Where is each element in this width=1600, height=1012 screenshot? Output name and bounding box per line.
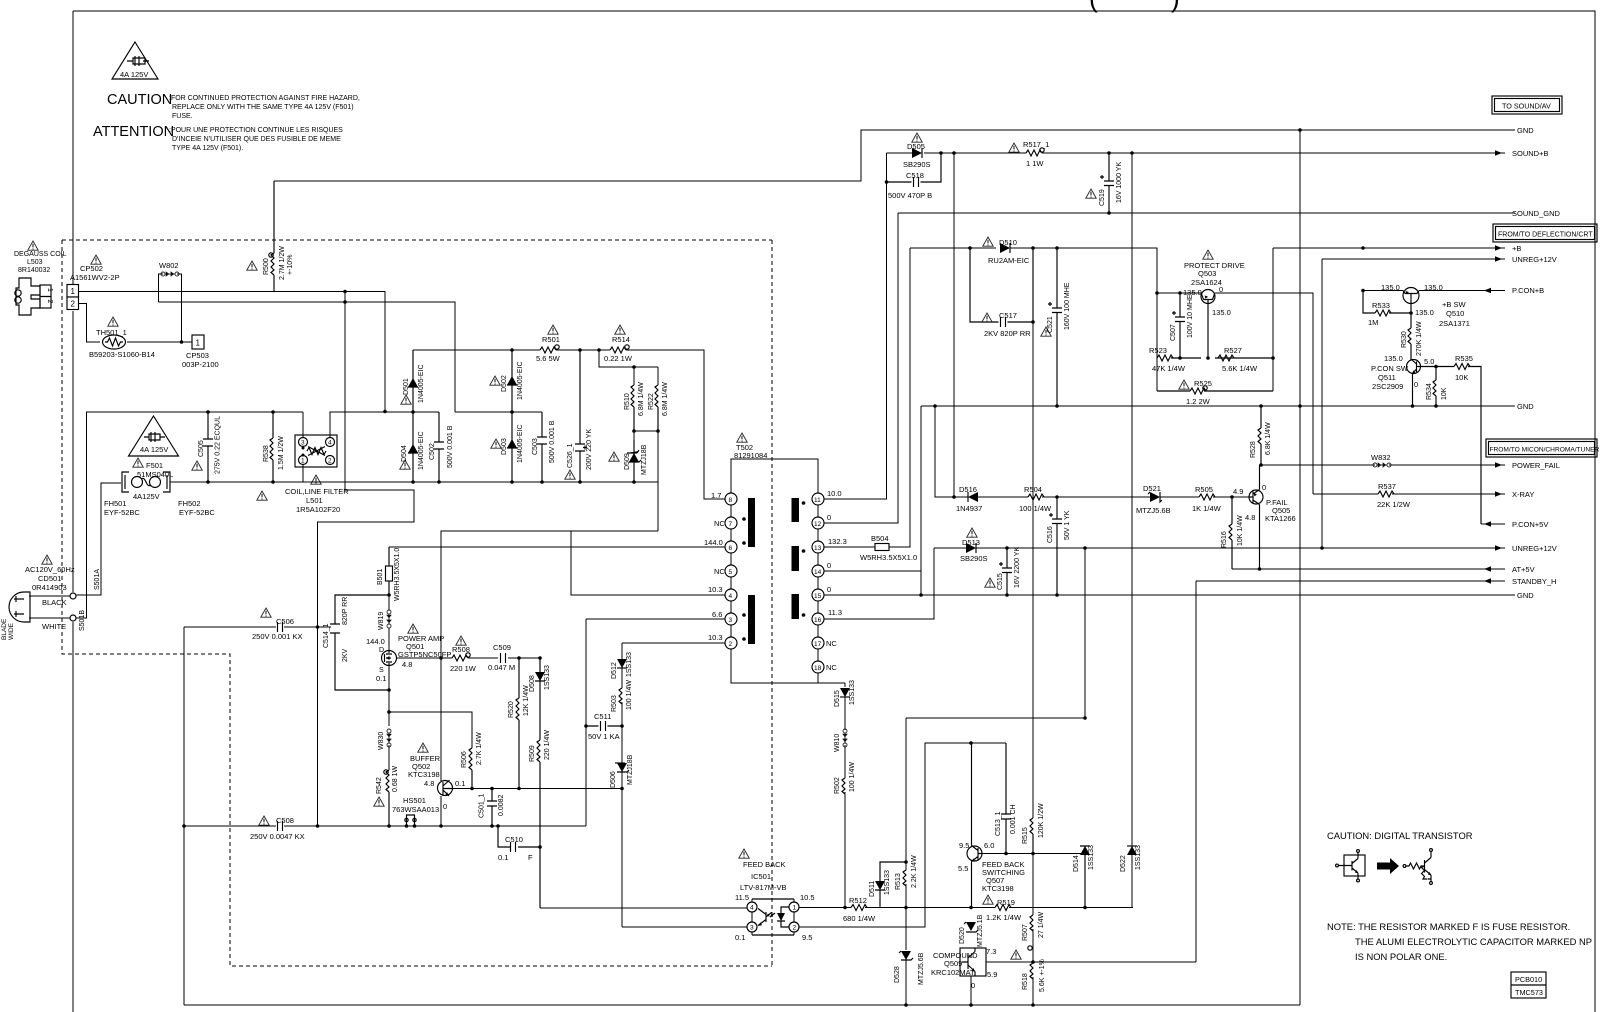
D509 zener diode [627,440,641,482]
node gnd C521 [1055,404,1059,408]
wire x1300 gnd drop [1299,130,1301,406]
buffer Q502 warning [418,743,428,752]
svg-text:BLACK: BLACK [42,598,67,607]
wire pin2 to D512 [622,642,725,644]
svg-text:680 1/4W: 680 1/4W [843,914,876,923]
svg-text:220 1/4W: 220 1/4W [544,730,551,760]
+B arrow [1495,245,1502,251]
svg-text:5: 5 [729,569,733,576]
svg-text:2SA1624: 2SA1624 [1191,278,1222,287]
svg-text:R530: R530 [1401,331,1408,348]
svg-text:UNREG+12V: UNREG+12V [1512,544,1557,553]
svg-text:R517_1: R517_1 [1023,140,1049,149]
node B D502 D503 [510,410,514,414]
D501 warning [401,395,411,404]
C521 warning [1041,327,1051,336]
R522 resistor [655,385,658,431]
D516 diode [968,492,978,502]
D510 labels [988,238,1030,265]
R509 resistor [537,740,540,908]
node gnd D516 [933,404,937,408]
wire plug to switch [29,596,70,618]
C506 capacitor [278,622,283,632]
svg-text:C511: C511 [594,712,611,721]
FH501 FH502 labels [104,499,215,517]
wire L501 pin3 up [302,412,304,438]
COMPOUND Q509 labels [931,947,997,990]
wire D512 R503 D506 chain [621,643,623,927]
svg-text:TO SOUND/AV: TO SOUND/AV [1502,102,1551,111]
svg-text:THE ALUMI ELECTROLYTIC CAPACIT: THE ALUMI ELECTROLYTIC CAPACITOR MARKED … [1355,936,1592,947]
R514 resistor [610,345,629,353]
wire feedback drop x1085 [1084,548,1086,718]
AT+5V arrow [1484,566,1491,572]
B504 labels [860,534,917,562]
R517_1 warning [1009,143,1019,152]
node Q503 base [1206,356,1210,360]
T502 pin 3 [725,613,737,625]
svg-text:120K 1/2W: 120K 1/2W [1038,803,1045,838]
node R533 R530 [1409,311,1413,315]
svg-text:EYF-52BC: EYF-52BC [179,508,215,517]
wire pin15 to gnd rail [824,594,921,596]
wire AC node B rail [455,411,542,413]
svg-text:1SS133: 1SS133 [1135,845,1142,870]
svg-text:5.0: 5.0 [1424,357,1434,366]
svg-text:D: D [379,647,384,654]
svg-text:W830: W830 [378,732,385,750]
node D510 in [968,246,972,250]
Q502 transistor [438,780,453,796]
svg-text:R509: R509 [529,745,536,762]
D513 diode [966,543,976,553]
C511 capacitor [586,721,622,731]
node R506 branch [387,710,391,714]
B504 ferrite bead [875,544,889,551]
svg-text:1N4005-EIC: 1N4005-EIC [517,424,524,463]
svg-text:R542: R542 [376,777,383,794]
svg-text:D516: D516 [959,485,977,494]
degauss connector pins 1 2 [40,285,51,308]
svg-text:+-10%: +-10% [287,255,294,275]
svg-text:003P-2100: 003P-2100 [182,360,219,369]
svg-text:50V 1 KA: 50V 1 KA [588,732,620,741]
degauss coil L503 warning [28,241,38,250]
wire pin8 from R514 [704,498,725,500]
IC501 pin 1 [789,902,799,912]
wire x954 to D516 [953,153,955,497]
R507 resistor [1030,915,1033,931]
wire Q503 collector emitter [1157,293,1313,494]
svg-text:7.3: 7.3 [986,947,996,956]
node A D501 D504 [411,410,415,414]
svg-text:R533: R533 [1372,301,1390,310]
node R538 bottom [271,480,275,484]
svg-text:SOUND_GND: SOUND_GND [1512,209,1561,218]
svg-text:S501A: S501A [94,569,101,590]
wire AT+5V line [1232,568,1505,570]
svg-text:TYPE 4A 125V (F501).: TYPE 4A 125V (F501). [172,145,243,152]
TO SOUND/AV box [1492,96,1562,114]
svg-text:135.0: 135.0 [1384,354,1403,363]
svg-text:2: 2 [71,300,76,309]
svg-text:4A 125V: 4A 125V [140,445,168,454]
fat arrow [1377,858,1399,874]
svg-text:MTZJ5.6B: MTZJ5.6B [918,952,925,985]
svg-text:GND: GND [1517,402,1534,411]
svg-text:SB290S: SB290S [903,160,931,169]
R500 warning [247,261,257,270]
svg-text:0.047 M: 0.047 M [488,663,515,672]
svg-text:1R5A102F20: 1R5A102F20 [296,505,340,514]
svg-text:NC: NC [714,567,725,576]
svg-text:FH501: FH501 [104,499,127,508]
svg-text:1.5M 1/2W: 1.5M 1/2W [278,436,285,470]
node protect left [1155,291,1159,295]
node gnd R534 [1434,404,1438,408]
wire bottom rail [184,406,1300,1005]
svg-text:R513: R513 [895,873,902,890]
node GND x1300 [1298,128,1302,132]
C521 capacitor electrolytic [1048,248,1062,406]
svg-text:0: 0 [443,802,447,811]
wire junction down to C508 [317,627,319,826]
T502 pin 4 [725,589,737,601]
wire x906 feedback branch [905,718,907,1005]
svg-text:R514: R514 [612,335,630,344]
HS501 spark gap [405,815,416,826]
svg-text:D511: D511 [869,881,876,897]
feed back switching Q507 labels [982,860,1025,893]
T502 pin 6 [725,541,737,553]
L501 winding symbol [307,447,326,456]
Q505 transistor [1249,465,1263,569]
C510 capacitor branch [498,826,540,852]
svg-text:UNREG+12V: UNREG+12V [1512,255,1557,264]
node DC+ D502 [510,348,514,352]
IC501 pin 2 [789,922,799,932]
D501 diode [408,350,418,412]
svg-text:0.0082: 0.0082 [498,794,505,816]
svg-text:CP503: CP503 [186,351,209,360]
switch S501A pole [70,593,76,599]
svg-text:W5RH3.5X5X1.0: W5RH3.5X5X1.0 [860,553,917,562]
D503 warning [491,439,501,448]
T502 pin 2 [725,637,737,649]
FH502 fuse holder bracket [163,472,170,492]
svg-text:17: 17 [814,641,822,648]
T502 core bar right 2 [792,546,800,571]
wire pin11 to sound rectifier [824,153,887,499]
node C511 right [620,724,624,728]
node P.CON+B Q510 [1361,289,1365,293]
node R527 right [1271,356,1275,360]
svg-text:C513_1: C513_1 [995,811,1002,836]
degauss coil L503 labels [14,251,67,274]
svg-text:R538: R538 [263,445,270,462]
C506 labels [252,617,302,641]
wire bridge DC- rail [170,481,658,483]
wire Q509 emitter [970,976,972,1005]
svg-text:S: S [379,667,384,674]
B501 ferrite bead [386,547,393,595]
svg-text:135.0: 135.0 [1424,283,1443,292]
svg-text:C509: C509 [493,643,511,652]
switch S501B pole [70,615,76,621]
T502 pin 5 [725,565,737,577]
svg-text:1N4005-EIC: 1N4005-EIC [418,431,425,470]
svg-text:R500: R500 [263,258,270,275]
svg-text:L501: L501 [306,496,323,505]
svg-text:MTZJ18B: MTZJ18B [627,754,634,785]
wire gate line [397,657,541,659]
node rail C510 [496,824,500,828]
T502 pin 7 [725,517,737,529]
svg-text:R502: R502 [834,777,841,794]
svg-text:IS NON POLAR ONE.: IS NON POLAR ONE. [1355,951,1447,962]
svg-text:6.8M 1/4W: 6.8M 1/4W [662,382,669,416]
svg-text:270K 1/4W: 270K 1/4W [1416,321,1423,356]
T502 pin 13 [812,541,824,553]
T502 right pin values [826,489,847,672]
title text cut at top edge [1089,0,1180,13]
svg-text:1SS133: 1SS133 [626,652,633,677]
node DC- D509 [632,480,636,484]
svg-text:R510: R510 [624,393,631,410]
svg-text:51MS040L: 51MS040L [137,470,173,479]
wire pin16 up to D513 [824,548,934,619]
svg-text:D514: D514 [1073,855,1080,872]
wire pin13 to B504 [824,248,910,547]
svg-text:C521: C521 [1047,316,1054,333]
svg-text:EYF-52BC: EYF-52BC [104,508,140,517]
svg-text:D512: D512 [611,662,618,679]
caution english text [169,95,360,120]
svg-text:LTV-817M-VB: LTV-817M-VB [740,883,787,892]
svg-text:ATTENTION: ATTENTION [93,124,174,140]
node C521 top [1055,246,1059,250]
IC501 labels [740,860,787,892]
svg-text:0: 0 [827,561,831,570]
CP502 labels [70,264,120,282]
svg-text:5.5: 5.5 [958,864,968,873]
AC plug symbol [9,592,30,622]
node C518 left [885,180,889,184]
W832 jumper [1373,462,1391,468]
HS501 labels [392,796,439,814]
node C508 left [182,824,186,828]
svg-text:NC: NC [826,639,837,648]
svg-text:R525: R525 [1194,379,1212,388]
svg-text:5.6 5W: 5.6 5W [536,354,561,363]
svg-text:3: 3 [750,925,754,932]
T502 pin 12 [812,517,824,529]
node +B Q510 tap [1361,246,1365,250]
C517 warning [982,313,992,322]
node POWER_FAIL R528 [1259,463,1263,467]
svg-text:KTC3198: KTC3198 [408,770,440,779]
wire IC501 pin1 R512 line [799,907,1133,909]
wire bridge DC+ rail [413,350,724,499]
C518 capacitor [887,153,942,187]
wire pin3 to C511 [586,618,725,620]
svg-text:D515: D515 [834,690,841,707]
svg-text:11.3: 11.3 [828,608,842,617]
svg-text:R508: R508 [452,645,470,654]
svg-text:STANDBY_H: STANDBY_H [1512,577,1556,586]
R519 warning [983,895,993,904]
svg-text:KTC3198: KTC3198 [982,884,1014,893]
R538 warning [257,491,267,500]
svg-text:10.3: 10.3 [708,585,723,594]
svg-text:1.2 2W: 1.2 2W [1186,397,1211,406]
svg-text:500V 0.001 B: 500V 0.001 B [549,420,556,463]
T502 frame top [731,459,818,493]
svg-text:R522: R522 [648,393,655,410]
digital transistor equivalent symbol [1403,849,1432,885]
wire R506 branch [389,712,472,748]
T502 right pin column [817,505,819,661]
svg-text:4A 125V: 4A 125V [120,70,148,79]
T502 left pin values [704,491,725,642]
wire UNREG+12V rectified line [934,547,1505,549]
svg-text:AT+5V: AT+5V [1512,565,1535,574]
svg-text:R535: R535 [1455,354,1473,363]
wire pin6 from Q501 drain [389,546,725,548]
T502 core bar left lower [748,595,755,644]
wire switch A to fuse holder [76,483,121,595]
svg-text:R534: R534 [1426,383,1433,400]
svg-text:PCB010: PCB010 [1515,975,1542,984]
AC plug CD501 warning [42,555,52,564]
Q503 transistor [1201,290,1215,359]
svg-text:100 1/4W: 100 1/4W [849,762,856,792]
node AC live to bridge [383,410,387,414]
svg-text:8: 8 [729,497,733,504]
wire pin14 down to gnd rail [824,571,921,595]
FROM/TO DEFLECTION/CRT box [1493,224,1597,242]
R516 resistor [1229,497,1232,569]
C513_1 capacitor [1001,743,1011,854]
svg-text:135.0: 135.0 [1415,308,1434,317]
node TH501 CP503 junction [180,340,184,344]
wire pin12 to sound gnd [824,213,898,523]
svg-text:0.1: 0.1 [735,933,745,942]
F501 fuse symbol [132,477,161,488]
svg-text:R506: R506 [461,751,468,768]
T502 left pin column [730,505,732,637]
wire feedback sense x1033 [1032,322,1034,818]
svg-text:16V 1000 YK: 16V 1000 YK [1116,162,1123,203]
node C505 bottom [206,480,210,484]
svg-text:15: 15 [814,593,822,600]
svg-text:0.001 CH: 0.001 CH [1010,804,1017,834]
svg-text:6.8K 1/4W: 6.8K 1/4W [1265,422,1272,455]
P.CON+B arrow [1484,288,1491,294]
svg-text:1N4005-EIC: 1N4005-EIC [418,364,425,403]
svg-text:1: 1 [301,458,305,465]
C519 warning [1086,189,1096,198]
C509 capacitor [501,653,506,663]
node R510 bottom [632,429,636,433]
svg-text:2: 2 [46,300,53,304]
R506 resistor [469,748,472,788]
X-RAY arrow [1495,491,1502,497]
svg-text:47K 1/4W: 47K 1/4W [1152,364,1186,373]
svg-text:GND: GND [1517,591,1534,600]
svg-text:4: 4 [729,593,733,600]
R505 resistor [1199,494,1215,500]
wire TH501 to CP503 [127,341,192,343]
D522 diode [1127,846,1137,855]
node rail D528 [904,1003,908,1007]
Q501 D S pin labels [379,647,384,674]
Q505 labels [1233,483,1296,523]
svg-text:4.8: 4.8 [402,660,412,669]
svg-text:820P RR: 820P RR [342,597,349,625]
node gate junction [439,656,443,660]
node C511 left [584,724,588,728]
C507 capacitor electrolytic [1172,293,1185,358]
svg-text:8R140032: 8R140032 [18,267,50,274]
svg-text:275V 0.22 ECQUL: 275V 0.22 ECQUL [215,416,222,474]
L501 labels [285,487,349,514]
wire fuse to L501 pin1 [170,465,303,482]
protect drive Q503 labels [1183,261,1245,317]
svg-text:2.7M 1/2W: 2.7M 1/2W [279,246,286,280]
node C517 right top [1031,246,1035,250]
svg-text:2: 2 [729,641,733,648]
svg-text:W832: W832 [1371,453,1391,462]
svg-text:CAUTION: CAUTION [107,92,172,108]
svg-text:4.9: 4.9 [1233,487,1243,496]
AC plug labels [25,565,75,592]
dashed isolation box [62,240,772,966]
svg-text:135.0: 135.0 [1212,308,1231,317]
Q510 labels [1381,283,1470,328]
svg-text:6.6: 6.6 [712,610,722,619]
svg-text:0.1: 0.1 [498,853,508,862]
Q507 values [958,841,994,873]
node base R506 [470,787,474,791]
svg-text:IC501: IC501 [751,872,771,881]
svg-text:0: 0 [827,585,831,594]
node Q511 base R534 [1434,365,1438,369]
L501 line filter box [295,435,337,467]
node rail HS501b [413,824,417,828]
node R513 bottom pin1 wire [904,906,908,910]
wire D515 W810 R502 chain [844,683,846,908]
node gnd x1300 [1298,404,1302,408]
svg-text:F501: F501 [146,461,163,470]
node R513 top [904,860,908,864]
UNREG+12V arrow mid [1495,545,1502,551]
svg-text:144.0: 144.0 [366,637,385,646]
svg-text:L503: L503 [27,259,43,266]
svg-text:KTA1266: KTA1266 [1265,514,1296,523]
svg-text:FH502: FH502 [178,499,201,508]
wire Q501 source down [388,666,390,727]
R501 resistor [540,345,559,353]
svg-text:1: 1 [46,288,53,292]
svg-text::POUR UNE PROTECTION CONTINUE: :POUR UNE PROTECTION CONTINUE LES RISQUE… [169,127,343,134]
T502 core bar right 3 [792,594,800,619]
T502 pin 17 [812,637,824,649]
svg-text:0: 0 [1414,380,1418,389]
R510 resistor [631,385,634,431]
D505 labels [903,142,931,169]
svg-text:S501B: S501B [79,610,86,631]
